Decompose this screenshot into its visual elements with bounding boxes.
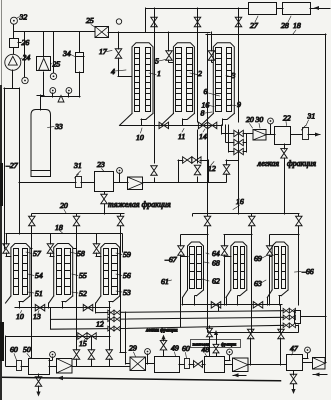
valve D-E	[211, 302, 221, 309]
svg-text:6: 6	[204, 87, 208, 96]
heat exchanger bottom-mid	[233, 358, 249, 372]
wire 47 to right exchanger	[303, 362, 312, 364]
svg-text:13: 13	[33, 312, 41, 321]
svg-text:33: 33	[54, 122, 63, 131]
valve row3	[234, 148, 244, 155]
svg-text:24: 24	[23, 53, 31, 62]
valve x=226.5	[223, 165, 230, 175]
header 18	[6, 233, 122, 235]
wire header18 drop right	[96, 234, 98, 244]
wire box to frame	[301, 316, 326, 318]
wire vessel 34 to main line	[79, 32, 81, 52]
wire valve 17 drop	[118, 32, 120, 49]
svg-text:фракция: фракция	[221, 341, 236, 346]
wire: riser 1	[154, 8, 156, 163]
valve pair bus1 left	[108, 310, 114, 315]
svg-text:2: 2	[198, 69, 202, 78]
column A (51/54/57)	[11, 244, 30, 297]
collector box right	[295, 311, 301, 324]
separator box 22	[275, 127, 291, 145]
heat exchanger 25 top	[95, 27, 109, 38]
valve pair bus3 left	[108, 326, 114, 331]
feed valve column C	[93, 244, 100, 254]
stub riser b to column B	[73, 248, 76, 250]
valve header16 b	[249, 216, 256, 226]
drain arrow 50	[36, 392, 40, 397]
gauge manifold right	[66, 88, 72, 94]
wire stem gauge B from main line	[53, 32, 55, 73]
wire riser a down into tank 50	[31, 226, 33, 358]
takeoff valve light fraction 2	[163, 350, 165, 356]
column E (63/68)	[231, 242, 247, 290]
scan blob left lower	[0, 322, 4, 361]
heat exchanger bottom-left	[57, 359, 73, 374]
wire row3	[229, 151, 234, 153]
scan blob left upper	[0, 163, 3, 206]
svg-text:11: 11	[178, 132, 185, 141]
wire valve to 48	[202, 364, 205, 366]
wire bus2	[51, 318, 108, 320]
gauge tank 50	[50, 352, 56, 358]
wire header18 drop mid	[50, 234, 52, 244]
column 3	[213, 43, 234, 114]
T fitting	[37, 95, 44, 97]
svg-text:15: 15	[79, 339, 87, 348]
tank 48	[205, 357, 225, 373]
wire cylinder stem	[40, 95, 42, 110]
feed valve column B	[47, 244, 54, 254]
wire riser b down	[251, 226, 253, 332]
gauge 32	[10, 17, 17, 24]
svg-text:–27: –27	[5, 161, 19, 170]
svg-text:тяжелая: тяжелая	[193, 341, 210, 346]
wire stem gauge A from main line	[24, 32, 26, 77]
svg-text:52: 52	[79, 289, 87, 298]
exchanger 29	[130, 357, 146, 371]
wire frame into exchanger	[325, 362, 326, 364]
drain tank 47	[293, 371, 295, 375]
scan edge line left	[1, 0, 2, 400]
header 20	[32, 213, 124, 215]
drop valve a	[73, 350, 80, 360]
wire manifold riser a	[225, 125, 227, 142]
svg-text:51: 51	[35, 289, 43, 298]
wire 48 to exchanger	[225, 364, 232, 366]
vent circle	[116, 19, 121, 24]
valve E-F	[253, 302, 263, 309]
wire filter 25 down	[43, 72, 45, 95]
valve 14 double	[198, 122, 207, 128]
svg-text:29: 29	[129, 344, 137, 353]
wire collector x=125.8	[125, 312, 127, 364]
valve 17	[115, 49, 122, 59]
wire colC outlet continuation down	[109, 308, 111, 350]
wire 12 drops	[178, 160, 180, 182]
jog to feed valve D	[181, 234, 208, 236]
wire box 26 to pump 24	[13, 48, 15, 54]
drop valve x=250.7 below bus	[247, 329, 254, 339]
drain tank 50	[38, 374, 40, 377]
wire vessel 34 down	[79, 72, 81, 97]
wire cylinder manifold	[41, 96, 80, 98]
valve pair bus1 right	[283, 308, 289, 313]
wire outlet line bottom-left	[15, 307, 110, 309]
wire: long left line 27	[4, 88, 6, 249]
frame 18 top edge	[206, 34, 326, 36]
column B (52/55/58)	[54, 244, 73, 297]
svg-text:28: 28	[281, 21, 289, 30]
wire header18 right end drop	[122, 234, 124, 252]
valve header16 a	[204, 216, 211, 226]
wire header20 drop b	[76, 214, 78, 216]
tank 50	[29, 359, 50, 375]
svg-text:63: 63	[254, 279, 262, 288]
svg-text:20: 20	[246, 115, 254, 124]
valve pair bus2 right	[283, 315, 289, 320]
svg-text:легкая фракция: легкая фракция	[145, 329, 178, 334]
wire: link between coolers 27 and 28	[277, 8, 283, 10]
valve pair bus2 left	[108, 317, 114, 322]
svg-text:12: 12	[208, 164, 216, 173]
column 1	[132, 43, 153, 114]
wire col3 outlet down	[221, 125, 223, 134]
text heavy fraction small in box	[191, 340, 241, 348]
svg-text:фракция: фракция	[287, 159, 316, 168]
feed valve column A	[3, 244, 10, 254]
wire manifold below pump	[4, 88, 19, 90]
svg-text:31: 31	[307, 112, 316, 121]
drain valve 47	[290, 374, 297, 384]
box 26	[10, 39, 19, 48]
valve row1	[234, 130, 244, 137]
wire D outlet drop to bus1	[218, 305, 220, 311]
frame 18 right edge	[325, 34, 327, 316]
valve riser2 bottom	[194, 165, 201, 175]
svg-text:9: 9	[237, 100, 241, 109]
valve row2	[234, 139, 244, 146]
wire frame down right side	[325, 316, 327, 363]
cooler box 28	[283, 3, 311, 15]
valve before tank 48	[194, 361, 203, 368]
wire equipment line left	[6, 366, 16, 368]
svg-text:34: 34	[62, 49, 71, 58]
tank 47	[287, 355, 303, 371]
heat exchanger right of 23	[128, 177, 143, 190]
gas cylinder 33	[31, 110, 51, 177]
gauge A	[22, 77, 28, 83]
svg-text:30: 30	[255, 115, 264, 124]
wire 49 to fitting	[179, 364, 184, 366]
valve riser1 bottom	[151, 166, 158, 176]
fitting 60	[17, 361, 22, 371]
wire left edge drop	[5, 336, 7, 366]
wire colB drain to outlet line	[48, 303, 50, 308]
svg-text:1: 1	[157, 69, 161, 78]
flow arrow under mid exchanger	[233, 375, 246, 377]
wire header18 drop left	[6, 234, 8, 244]
valve on heavy product line	[213, 344, 219, 353]
svg-text:–67: –67	[164, 255, 178, 264]
svg-text:55: 55	[79, 271, 87, 280]
wire rows merge	[246, 134, 248, 152]
svg-text:26: 26	[22, 38, 30, 47]
wire drop b to equipment	[91, 336, 93, 350]
svg-text:22: 22	[283, 114, 291, 123]
wire long riser x=206	[207, 34, 209, 216]
takeoff arrow up light2	[161, 335, 165, 340]
valve 15	[78, 333, 87, 340]
valve header16 c	[296, 216, 303, 226]
wire header20 drop a	[31, 214, 33, 216]
gauge on 23	[117, 168, 123, 174]
wire bus1	[96, 312, 108, 314]
regulator valve	[58, 96, 64, 103]
gauge tank 48	[227, 349, 233, 355]
fitting 31 right	[303, 128, 309, 140]
gauge manifold left	[50, 88, 56, 94]
svg-text:61: 61	[161, 277, 169, 286]
svg-text:58: 58	[77, 249, 85, 258]
svg-text:4: 4	[111, 67, 115, 76]
fitting 60b	[185, 359, 190, 369]
valve 12 pair	[178, 160, 183, 162]
wire row2	[226, 142, 234, 144]
svg-text:31: 31	[73, 161, 82, 170]
svg-text:23: 23	[97, 160, 105, 169]
vessel 34	[76, 53, 84, 73]
svg-text:18: 18	[293, 21, 301, 30]
wire row1	[222, 133, 234, 135]
svg-text:тяжелая фракция: тяжелая фракция	[108, 200, 171, 209]
wire riser b down	[76, 226, 78, 350]
svg-text:68: 68	[212, 259, 220, 268]
wire riser c down	[120, 226, 122, 352]
svg-text:32: 32	[19, 13, 28, 22]
wire header20 drop c	[120, 214, 122, 216]
valve B-C outlets	[83, 304, 93, 311]
svg-text:10: 10	[16, 312, 24, 321]
cooler box 27	[249, 3, 277, 15]
filter 20/30	[253, 130, 266, 141]
svg-text:48: 48	[202, 345, 210, 354]
wire into column 1	[118, 76, 132, 78]
gauge before box 22	[268, 118, 274, 124]
wire: main line y=32	[14, 31, 95, 33]
svg-text:27: 27	[250, 21, 259, 30]
svg-text:8: 8	[201, 109, 205, 118]
wire colC drain down to bus1	[95, 303, 97, 313]
wire drain bus y=336	[6, 336, 110, 338]
valve 5	[166, 51, 173, 61]
svg-text:64: 64	[212, 249, 220, 258]
svg-text:47: 47	[290, 344, 299, 353]
valve between col1 and col2	[159, 122, 169, 128]
header 16	[193, 213, 299, 215]
wire: riser 2	[197, 8, 199, 122]
wire drop to filter 25	[43, 32, 45, 57]
pump 24	[5, 54, 21, 70]
wire: top feed line	[146, 8, 248, 10]
svg-text:3: 3	[231, 71, 236, 80]
gauge tank 49	[145, 349, 151, 355]
svg-text:легкая: легкая	[257, 159, 280, 168]
wire colF drain	[267, 298, 269, 305]
wire: manifold branch down to heavy fraction row and header 18	[19, 88, 21, 234]
heat exchanger bottom-right	[313, 358, 326, 370]
wire branch down from outlet line	[50, 308, 52, 329]
fitting 31 left	[76, 177, 82, 188]
valve pair bus3 right	[283, 323, 289, 328]
svg-text:62: 62	[212, 277, 220, 286]
valve on riser 1	[151, 17, 158, 27]
wire collect line y=126.3	[120, 125, 222, 127]
drop valve x=281 below bus	[278, 329, 285, 339]
svg-text:59: 59	[123, 250, 131, 259]
wire light fraction drop	[284, 158, 286, 214]
valve 13	[35, 304, 45, 311]
svg-text:53: 53	[123, 288, 131, 297]
wire gauge 32 to box 26	[13, 25, 15, 38]
stub riser a to column A	[30, 248, 32, 250]
apparatus 23	[95, 172, 114, 192]
wire 29 to tank 49	[146, 363, 154, 365]
svg-text:60: 60	[10, 345, 18, 354]
wire header16 drop b	[251, 214, 253, 216]
wire heavy fraction row y=182	[19, 182, 76, 184]
valve below box 22	[284, 144, 286, 149]
wire fittings link	[189, 364, 194, 366]
svg-text:25: 25	[86, 16, 94, 25]
wire bus3 under box down	[296, 325, 298, 327]
svg-text:18: 18	[55, 223, 63, 232]
wire: riser 3	[238, 8, 240, 122]
feed valve column D	[178, 246, 185, 256]
column D (61/62)	[188, 242, 204, 290]
drain valve 50	[35, 377, 42, 387]
drop valve c	[106, 350, 113, 360]
svg-text:50: 50	[23, 345, 31, 354]
return arrow left	[57, 376, 63, 380]
gauge B	[50, 73, 56, 79]
valve on riser 3	[235, 17, 242, 27]
wire valve 23 to header 20	[104, 204, 106, 214]
valve on riser 2	[194, 17, 201, 27]
wire header16 left stub	[192, 214, 194, 216]
light fraction outlet arrow	[308, 134, 320, 136]
column F (65/66)	[272, 242, 288, 290]
svg-text:49: 49	[171, 344, 179, 353]
wire colF outlet down to lower bus	[280, 305, 282, 332]
svg-text:10: 10	[136, 133, 144, 142]
wire bus3	[51, 328, 108, 331]
valve header20 b	[73, 216, 80, 226]
valve header20 a	[29, 216, 36, 226]
product arrow up heavy	[214, 330, 218, 335]
wire col2 feed	[168, 32, 170, 51]
column C (53/56/59)	[101, 244, 120, 297]
wire outlet line bottom-right	[182, 304, 282, 306]
wire manifold riser b	[228, 125, 230, 152]
valve below 23	[104, 192, 106, 194]
wire exchanger to tank 47	[248, 364, 286, 366]
feed line with arrow entering top right	[310, 8, 330, 10]
wire box22 to fitting 31	[291, 134, 302, 136]
wire filter to box 22	[266, 134, 275, 136]
jog to feed valve E	[224, 234, 252, 236]
wire colE drain	[226, 298, 228, 305]
svg-text:54: 54	[35, 271, 43, 280]
wire x=226.5 drop	[226, 160, 228, 165]
stub riser c to column C	[119, 248, 121, 250]
jog to feed valve F	[270, 234, 299, 236]
svg-text:14: 14	[199, 132, 207, 141]
filter 25 left	[37, 57, 51, 71]
flow arrow under right exchanger	[313, 374, 327, 376]
column 2	[173, 43, 194, 114]
wire colD drain	[182, 298, 184, 305]
drain arrow 47	[291, 389, 295, 394]
svg-text:57: 57	[33, 249, 42, 258]
wire col3 feed	[211, 32, 213, 51]
wire header16 drop c	[298, 214, 300, 216]
long return line bottom	[0, 377, 281, 381]
svg-text:16: 16	[236, 197, 244, 206]
tank 49	[155, 357, 180, 373]
svg-text:–66: –66	[301, 267, 314, 276]
gauge tank 47	[305, 347, 311, 353]
feed valve column E	[221, 246, 228, 256]
feed valve column F	[266, 246, 273, 256]
svg-text:60: 60	[182, 344, 190, 353]
wire pump discharge	[12, 70, 14, 88]
takeoff drop into tank 48 with valve	[209, 326, 211, 328]
valve header20 c	[117, 216, 124, 226]
valve col3 feed	[208, 51, 215, 61]
wire lower bus right	[208, 332, 298, 334]
svg-text:20: 20	[60, 201, 68, 210]
svg-text:56: 56	[123, 271, 131, 280]
drop valve b	[88, 350, 95, 360]
wire riser c down	[298, 226, 300, 305]
wire: drop from feed line to main line	[145, 8, 147, 32]
